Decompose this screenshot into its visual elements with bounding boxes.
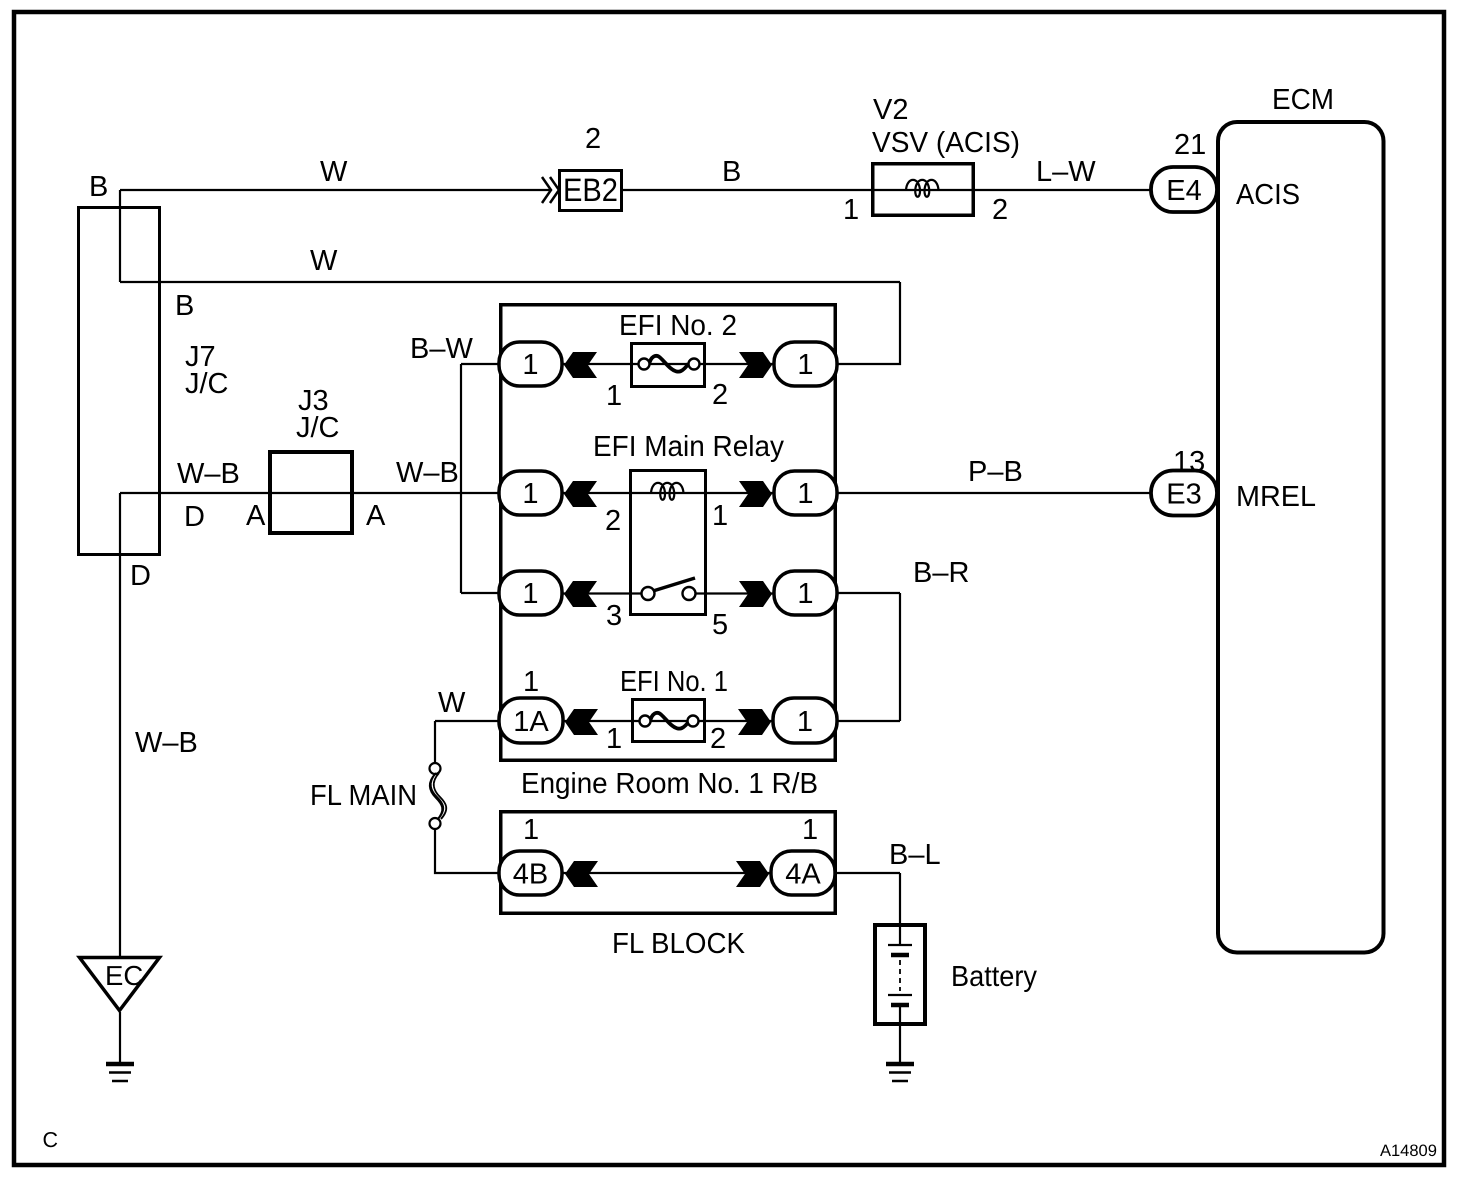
junction connector J7 J/C xyxy=(79,208,160,555)
svg-text:FL MAIN: FL MAIN xyxy=(310,780,417,812)
svg-text:V2: V2 xyxy=(873,94,908,126)
svg-text:2: 2 xyxy=(992,194,1008,226)
svg-text:B–L: B–L xyxy=(889,839,941,871)
ground EC xyxy=(80,958,160,1082)
svg-text:Engine Room No. 1 R/B: Engine Room No. 1 R/B xyxy=(521,768,818,800)
svg-text:ECM: ECM xyxy=(1272,84,1334,116)
arrow left row3 xyxy=(564,581,597,607)
svg-text:2: 2 xyxy=(712,379,728,411)
svg-text:A: A xyxy=(246,500,266,532)
svg-text:5: 5 xyxy=(712,609,728,641)
wire B-W branch (vertical left of R/B) xyxy=(461,364,500,593)
fuse EFI No.2 xyxy=(632,344,705,387)
Engine Room No.1 R/B box xyxy=(501,305,836,761)
VSV V2 (ACIS) xyxy=(871,164,975,216)
svg-text:EFI Main Relay: EFI Main Relay xyxy=(593,431,784,463)
ground (battery) xyxy=(886,1064,914,1081)
FL BLOCK box xyxy=(501,812,836,914)
svg-text:D: D xyxy=(130,560,151,592)
svg-text:MREL: MREL xyxy=(1236,481,1316,513)
svg-text:3: 3 xyxy=(606,600,622,632)
arrow right row2 xyxy=(739,481,772,507)
svg-text:EB2: EB2 xyxy=(563,172,618,208)
svg-text:1A: 1A xyxy=(513,706,549,738)
svg-text:A14809: A14809 xyxy=(1380,1142,1437,1160)
row3 internal wires (relay switch) xyxy=(562,592,774,594)
wire B (EB2 to VSV) xyxy=(623,189,871,191)
wire (vertical inside J7, B to B) xyxy=(119,190,121,282)
connector oval 4B xyxy=(499,851,562,895)
junction connector J3 J/C xyxy=(270,452,352,533)
svg-text:EC: EC xyxy=(105,960,143,991)
junction chevrons at EB2 xyxy=(542,177,559,203)
fuse EFI No.1 xyxy=(633,700,705,742)
arrow right row3 xyxy=(739,581,772,607)
arrow right row4 xyxy=(738,709,771,735)
terminal E4 xyxy=(1151,167,1217,212)
svg-text:W: W xyxy=(310,245,338,277)
svg-text:W: W xyxy=(438,687,466,719)
svg-text:1: 1 xyxy=(606,723,622,755)
wire P-B (row2 to E3) xyxy=(837,492,1151,494)
svg-text:J/C: J/C xyxy=(185,368,229,400)
svg-text:W: W xyxy=(320,156,348,188)
connector oval 1 (row4 right) xyxy=(773,698,837,743)
arrow left row2 xyxy=(564,481,597,507)
connector oval 1 (row1 left) xyxy=(499,342,562,386)
row1 internal wire xyxy=(562,363,774,365)
relay switch contacts xyxy=(642,578,696,600)
svg-text:B–W: B–W xyxy=(410,333,473,365)
svg-text:1: 1 xyxy=(712,500,728,532)
connector oval 1A xyxy=(499,698,563,743)
row2 internal wire xyxy=(562,492,774,494)
terminal E3 xyxy=(1151,471,1217,516)
wire L-W (VSV to E4) xyxy=(975,189,1151,191)
wire W-B (J7 to J3 to R/B) xyxy=(120,492,500,494)
svg-text:L–W: L–W xyxy=(1036,156,1096,188)
svg-text:1: 1 xyxy=(523,814,539,846)
relay EFI Main Relay xyxy=(631,471,706,615)
connector oval 1 (row1 right) xyxy=(774,342,837,386)
wire W (1A to FL MAIN) xyxy=(435,721,499,763)
arrow left row1 xyxy=(564,352,597,378)
arrow left row4 xyxy=(565,709,598,735)
svg-text:1: 1 xyxy=(522,578,538,610)
wire B-L (4A to battery) xyxy=(835,873,900,945)
wire (FL MAIN to 4B) xyxy=(435,829,500,873)
svg-text:1: 1 xyxy=(797,478,813,510)
battery BAT1 xyxy=(875,925,925,1024)
svg-text:1: 1 xyxy=(802,814,818,846)
svg-text:B: B xyxy=(175,290,194,322)
connector oval 1 (row2 left) xyxy=(499,471,562,515)
svg-text:1: 1 xyxy=(606,380,622,412)
svg-text:C: C xyxy=(43,1128,59,1152)
row4 internal wire xyxy=(563,720,773,722)
connector oval 4A xyxy=(771,851,835,895)
svg-text:Battery: Battery xyxy=(951,961,1037,993)
ECM U1 box xyxy=(1218,122,1384,953)
svg-text:1: 1 xyxy=(797,578,813,610)
svg-text:2: 2 xyxy=(585,123,601,155)
FL row internal wire xyxy=(562,872,771,874)
svg-text:1: 1 xyxy=(522,349,538,381)
svg-text:4A: 4A xyxy=(785,859,821,891)
svg-text:B: B xyxy=(89,171,108,203)
wire (down right side to row1 oval) xyxy=(837,282,900,364)
wire W-B (J7 down to EC) xyxy=(119,493,121,957)
svg-text:EFI No. 1: EFI No. 1 xyxy=(620,666,728,698)
wire (battery to ground) xyxy=(899,1007,901,1062)
svg-text:1: 1 xyxy=(797,349,813,381)
svg-text:W–B: W–B xyxy=(396,457,459,489)
svg-text:A: A xyxy=(366,500,386,532)
arrow left FL row xyxy=(565,861,598,887)
svg-text:D: D xyxy=(184,501,205,533)
arrow right row1 xyxy=(739,352,772,378)
svg-text:W–B: W–B xyxy=(177,458,240,490)
svg-text:E3: E3 xyxy=(1166,479,1201,511)
svg-text:VSV (ACIS): VSV (ACIS) xyxy=(872,127,1020,159)
svg-text:4B: 4B xyxy=(513,859,548,891)
svg-text:2: 2 xyxy=(710,723,726,755)
connector oval 1 (row2 right) xyxy=(774,471,837,515)
svg-text:EFI No. 2: EFI No. 2 xyxy=(619,310,737,342)
wire W (J7 to engine room R/B) xyxy=(120,281,900,283)
svg-text:E4: E4 xyxy=(1166,175,1201,207)
svg-text:B: B xyxy=(722,156,741,188)
svg-text:1: 1 xyxy=(797,706,813,738)
svg-text:1: 1 xyxy=(843,194,859,226)
svg-text:P–B: P–B xyxy=(968,456,1023,488)
svg-text:2: 2 xyxy=(605,505,621,537)
svg-text:21: 21 xyxy=(1174,129,1206,161)
svg-text:1: 1 xyxy=(523,666,539,698)
wire B-R (row3 to row4 right) xyxy=(837,593,900,721)
fusible link FL MAIN xyxy=(430,763,447,829)
connector EB2 xyxy=(560,171,622,211)
arrow right FL row xyxy=(736,861,769,887)
connector oval 1 (row3 left) xyxy=(499,571,562,615)
svg-text:ACIS: ACIS xyxy=(1236,179,1300,211)
svg-text:B–R: B–R xyxy=(913,557,969,589)
svg-text:FL BLOCK: FL BLOCK xyxy=(612,928,746,960)
connector oval 1 (row3 right) xyxy=(774,571,837,615)
svg-text:J/C: J/C xyxy=(296,412,340,444)
svg-text:1: 1 xyxy=(522,478,538,510)
wire W (B to EB2) xyxy=(120,189,550,191)
svg-text:W–B: W–B xyxy=(135,727,198,759)
